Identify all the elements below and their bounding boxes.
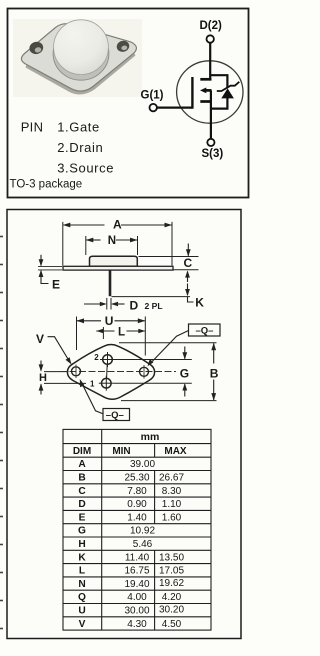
table row Q — [78, 592, 182, 603]
datum Q bottom — [80, 379, 130, 421]
dim E — [38, 255, 62, 292]
svg-text:PIN: PIN — [21, 120, 44, 135]
svg-text:E: E — [52, 278, 60, 292]
svg-text:1: 1 — [90, 379, 95, 388]
svg-text:A: A — [78, 459, 86, 470]
channel dash source — [200, 100, 211, 103]
svg-text:0.90: 0.90 — [127, 499, 147, 510]
table row U — [78, 605, 184, 617]
svg-text:19.40: 19.40 — [124, 579, 149, 590]
svg-text:H: H — [39, 372, 47, 384]
svg-text:L: L — [79, 566, 85, 577]
svg-text:10.92: 10.92 — [130, 526, 155, 537]
svg-text:MIN: MIN — [112, 446, 130, 457]
svg-text:30.00: 30.00 — [124, 606, 149, 617]
svg-text:8.30: 8.30 — [162, 486, 182, 497]
svg-text:N: N — [108, 235, 116, 247]
svg-text:2: 2 — [94, 353, 99, 362]
svg-text:4.30: 4.30 — [127, 619, 147, 630]
table row V — [79, 619, 182, 630]
mounting hole left — [72, 365, 81, 379]
datum Q top — [148, 324, 221, 366]
svg-text:1.40: 1.40 — [127, 512, 147, 523]
drain terminal D(2) — [200, 20, 223, 43]
svg-text:L: L — [118, 326, 125, 338]
table row K — [78, 552, 184, 563]
side view pin — [109, 270, 112, 296]
dim U — [77, 314, 146, 355]
TO-3 package photo — [13, 19, 142, 97]
svg-text:MAX: MAX — [164, 446, 187, 457]
svg-text:B: B — [78, 473, 85, 484]
svg-text:19.62: 19.62 — [159, 578, 184, 589]
svg-text:K: K — [78, 552, 86, 563]
channel dash drain — [200, 78, 211, 81]
svg-text:C: C — [78, 486, 86, 497]
svg-text:N: N — [78, 579, 85, 590]
svg-text:C: C — [184, 256, 193, 270]
svg-text:V: V — [36, 332, 44, 346]
svg-text:DIM: DIM — [73, 446, 91, 457]
dim C — [139, 244, 199, 270]
svg-text:17.05: 17.05 — [159, 566, 184, 577]
svg-text:7.80: 7.80 — [127, 486, 147, 497]
svg-text:D: D — [130, 299, 139, 313]
gate terminal G(1) — [141, 89, 164, 111]
dim D 2PL — [84, 298, 163, 313]
svg-text:mm: mm — [141, 431, 160, 443]
panel: pin configuration box — [8, 9, 249, 198]
table row E — [79, 512, 182, 523]
table row D — [78, 499, 181, 510]
table header — [73, 431, 187, 457]
svg-text:2.Drain: 2.Drain — [57, 140, 103, 155]
svg-text:3.Source: 3.Source — [57, 161, 114, 176]
pin 1 — [90, 364, 114, 391]
svg-text:A: A — [113, 218, 122, 232]
centerline — [44, 371, 176, 373]
svg-text:5.46: 5.46 — [133, 539, 153, 550]
table row N — [78, 578, 184, 590]
wire drain — [209, 43, 211, 80]
svg-text:D(2): D(2) — [200, 20, 223, 32]
svg-text:39.00: 39.00 — [130, 459, 155, 470]
svg-text:1.Gate: 1.Gate — [57, 120, 100, 135]
svg-text:G: G — [78, 526, 86, 537]
svg-text:30.20: 30.20 — [159, 605, 184, 616]
svg-text:1.10: 1.10 — [162, 499, 182, 510]
dim V — [36, 332, 72, 365]
svg-text:G(1): G(1) — [141, 89, 164, 101]
dim K — [112, 270, 205, 309]
table row C — [78, 486, 181, 497]
svg-text:26.67: 26.67 — [159, 473, 184, 484]
svg-text:D: D — [78, 499, 85, 510]
svg-text:Q: Q — [78, 592, 86, 603]
svg-text:E: E — [79, 512, 86, 523]
dim B — [119, 343, 219, 401]
source terminal S(3) — [202, 139, 224, 160]
pin legend — [21, 120, 114, 176]
svg-text:4.50: 4.50 — [162, 619, 182, 630]
svg-text:16.75: 16.75 — [124, 566, 149, 577]
dim N — [86, 235, 138, 255]
table row L — [79, 566, 185, 577]
svg-text:TO-3 package: TO-3 package — [10, 178, 83, 190]
svg-text:25.30: 25.30 — [124, 473, 149, 484]
left margin tick marks — [0, 237, 3, 629]
dim A — [63, 218, 172, 266]
svg-text:G: G — [180, 366, 189, 380]
svg-text:U: U — [105, 314, 114, 328]
svg-text:2 PL: 2 PL — [145, 301, 163, 311]
wire gate — [157, 106, 192, 108]
svg-text:S(3): S(3) — [202, 148, 224, 160]
table row G — [78, 526, 155, 537]
table row A — [78, 459, 155, 470]
table row B — [78, 473, 184, 484]
svg-text:–Q–: –Q– — [196, 326, 214, 337]
table row H — [78, 539, 152, 550]
wire drain branch — [210, 75, 227, 88]
svg-text:U: U — [78, 606, 85, 617]
svg-text:B: B — [210, 366, 219, 380]
gate bar — [191, 77, 193, 109]
bottom view flange outline — [67, 345, 154, 400]
svg-text:1.60: 1.60 — [162, 512, 182, 523]
svg-text:K: K — [195, 295, 204, 309]
pin 2 — [94, 352, 115, 367]
svg-text:11.40: 11.40 — [125, 552, 150, 563]
wire source — [210, 90, 212, 138]
svg-text:13.50: 13.50 — [159, 552, 184, 563]
mounting hole right — [140, 365, 149, 379]
wire diode to source — [211, 97, 228, 109]
body diode — [217, 82, 240, 99]
side view cap — [90, 256, 138, 266]
svg-text:4.00: 4.00 — [127, 592, 147, 603]
dim G — [112, 347, 192, 397]
svg-text:4.20: 4.20 — [162, 592, 182, 603]
panel: mechanical data box — [7, 210, 241, 639]
side view flange — [63, 266, 173, 270]
svg-text:V: V — [79, 619, 86, 630]
dim H — [39, 361, 86, 395]
TO-3 package label — [10, 178, 83, 190]
svg-text:H: H — [78, 539, 85, 550]
mosfet symbol body circle — [177, 61, 243, 123]
svg-text:–Q–: –Q– — [106, 410, 124, 421]
dimension table grid — [63, 429, 211, 630]
dim L — [96, 326, 145, 339]
channel dash body with arrow — [200, 88, 212, 94]
